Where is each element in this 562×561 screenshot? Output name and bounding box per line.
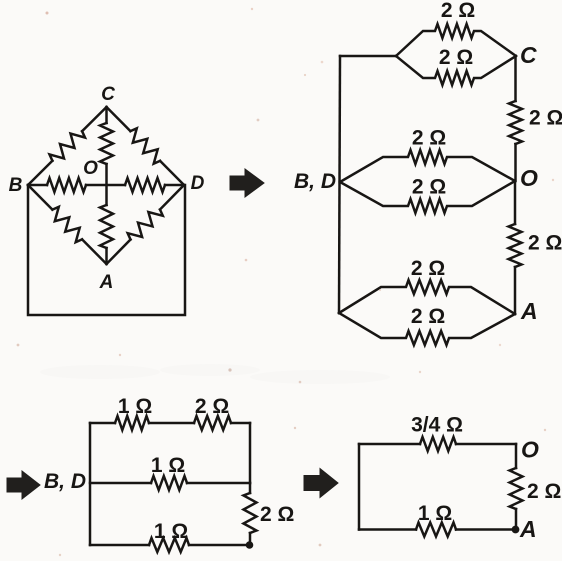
svg-text:2 Ω: 2 Ω bbox=[411, 257, 445, 280]
svg-text:B, D: B, D bbox=[44, 470, 86, 493]
svg-text:2 Ω: 2 Ω bbox=[260, 503, 294, 526]
svg-text:O: O bbox=[520, 165, 538, 191]
svg-text:A: A bbox=[519, 516, 537, 542]
svg-text:D: D bbox=[191, 173, 205, 194]
svg-text:C: C bbox=[520, 42, 537, 68]
svg-text:2 Ω: 2 Ω bbox=[528, 232, 562, 255]
svg-text:B: B bbox=[9, 175, 23, 196]
svg-text:3/4 Ω: 3/4 Ω bbox=[411, 414, 463, 437]
svg-text:O: O bbox=[83, 158, 98, 179]
svg-text:B, D: B, D bbox=[294, 170, 336, 193]
svg-text:2 Ω: 2 Ω bbox=[527, 480, 561, 503]
svg-text:2 Ω: 2 Ω bbox=[411, 305, 445, 328]
svg-text:A: A bbox=[99, 272, 114, 293]
svg-text:2 Ω: 2 Ω bbox=[441, 0, 475, 22]
svg-text:1 Ω: 1 Ω bbox=[151, 454, 185, 477]
svg-text:2 Ω: 2 Ω bbox=[412, 127, 446, 150]
svg-text:2 Ω: 2 Ω bbox=[195, 395, 229, 418]
svg-text:1 Ω: 1 Ω bbox=[118, 395, 152, 418]
svg-text:A: A bbox=[520, 298, 538, 324]
svg-text:1 Ω: 1 Ω bbox=[154, 520, 188, 543]
svg-text:2 Ω: 2 Ω bbox=[412, 176, 446, 199]
svg-text:1 Ω: 1 Ω bbox=[418, 502, 452, 525]
svg-text:2 Ω: 2 Ω bbox=[529, 107, 562, 130]
svg-text:C: C bbox=[101, 84, 115, 105]
svg-text:O: O bbox=[521, 437, 539, 463]
svg-text:2 Ω: 2 Ω bbox=[439, 46, 473, 69]
